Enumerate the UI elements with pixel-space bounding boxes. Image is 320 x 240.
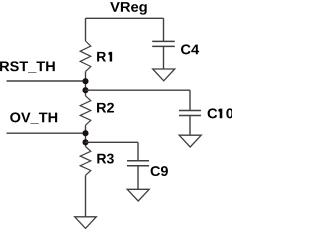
node OV_TH label (10, 112, 57, 123)
node RST_TH label (0, 61, 55, 72)
wire vertical from VReg rail down to R1 (85, 18, 87, 41)
resistor R2 (80, 96, 91, 125)
node VReg label (110, 2, 146, 15)
wire RST_TH horizontal (7, 80, 86, 82)
wire C4 branch vertical from top rail (163, 18, 165, 41)
wire OV_TH horizontal (7, 132, 86, 134)
ground under C10 (179, 135, 201, 147)
wire C9 branch horizontal (86, 141, 139, 143)
capacitor C10 (179, 111, 201, 116)
wire R2 bottom to R3 top through junctions (85, 125, 87, 146)
label C10 (208, 108, 234, 118)
wire R3 bottom to ground (85, 175, 87, 217)
label R3 (97, 154, 113, 164)
junction dot C9 branch node (82, 139, 88, 145)
ground under C9 (127, 189, 149, 201)
label C4 (181, 44, 199, 54)
junction dot C10 branch node (82, 87, 88, 93)
junction dot OV_TH node (82, 130, 88, 136)
capacitor C9 (127, 161, 149, 166)
resistor R3 (80, 147, 91, 176)
wire C4 bottom to ground (163, 46, 165, 69)
ground at bottom of divider (75, 217, 97, 229)
wire top horizontal VReg rail (86, 17, 164, 19)
label C9 (151, 166, 168, 176)
capacitor C4 (152, 41, 175, 46)
wire C9 branch vertical (137, 142, 139, 161)
wire C10 branch horizontal (86, 89, 191, 91)
junction dot RST_TH node (82, 78, 88, 84)
wire C10 bottom to ground (189, 116, 191, 136)
wire C10 branch vertical (189, 90, 191, 110)
wire R1 bottom to R2 top through junctions (85, 72, 87, 96)
label R1 (97, 52, 112, 62)
label R2 (97, 103, 114, 113)
ground under C4 (153, 69, 175, 81)
resistor R1 (80, 41, 91, 72)
wire C9 bottom to ground (137, 166, 139, 190)
